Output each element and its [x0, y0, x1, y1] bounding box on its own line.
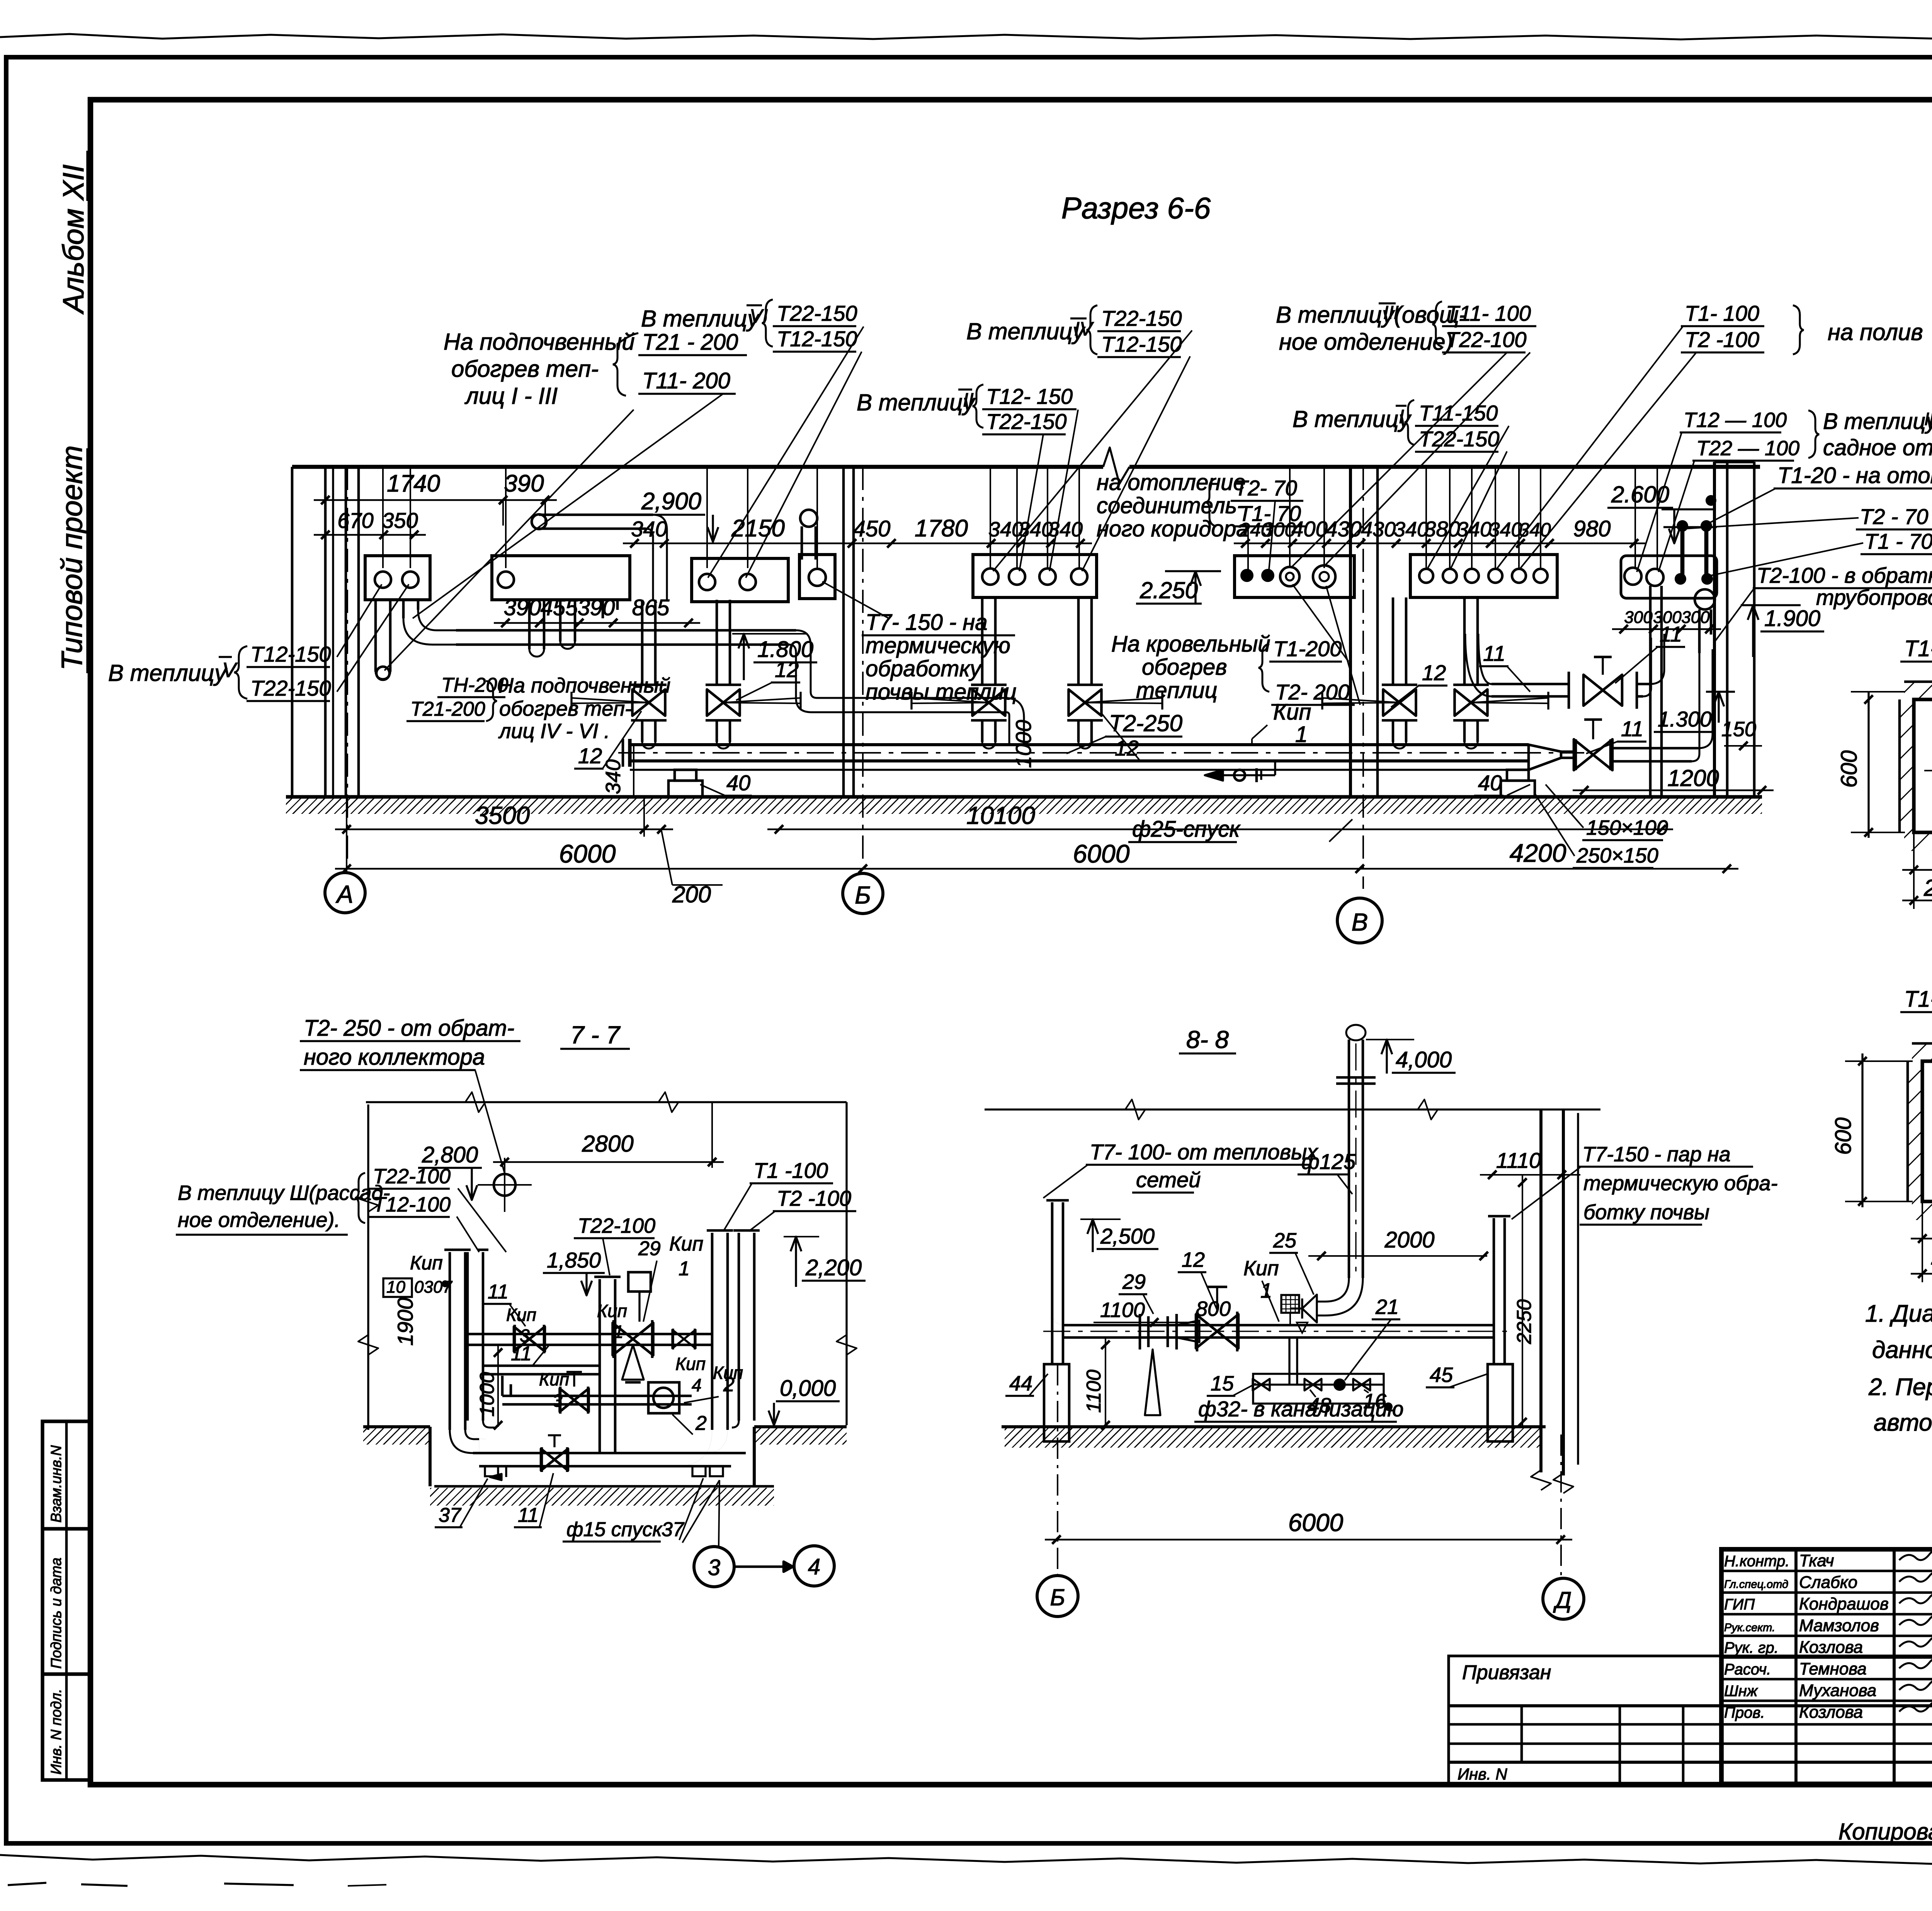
svg-text:6000: 6000	[1073, 839, 1130, 868]
svg-text:обработку: обработку	[866, 656, 982, 681]
riser pipe above valve 6	[1463, 597, 1466, 685]
svg-text:Т1- 70: Т1- 70	[1238, 501, 1301, 526]
svg-text:садное отделение): садное отделение)	[1823, 435, 1932, 460]
dim row 340-2150-450-1780-340x3	[623, 543, 1092, 545]
ground hatch 8-8	[1005, 1428, 1542, 1448]
dim row 670/350	[314, 534, 426, 536]
riser pipe above valve 5	[1392, 597, 1395, 685]
svg-text:Б: Б	[1050, 1584, 1065, 1610]
bottom horizontal run 7-7	[473, 1452, 746, 1455]
right wall 8-8	[1539, 1110, 1543, 1472]
black dot near 2600	[1706, 495, 1716, 506]
svg-text:На подпочвенный: На подпочвенный	[444, 329, 635, 355]
riser flange break	[1336, 1076, 1376, 1079]
svg-text:Рук. гр.: Рук. гр.	[1724, 1639, 1779, 1656]
svg-text:340: 340	[1394, 518, 1429, 541]
valve 11 lower right	[1574, 739, 1593, 770]
channel б-б left wall hatch	[1908, 1061, 1922, 1201]
svg-text:ботку почвы: ботку почвы	[1583, 1201, 1709, 1224]
svg-text:Инв. N подл.: Инв. N подл.	[48, 1689, 65, 1775]
svg-text:2,200: 2,200	[805, 1255, 862, 1280]
riser dot P9d	[1701, 573, 1713, 585]
channel a-a left wall hatch	[1900, 699, 1914, 832]
top boundary line 8-8	[985, 1108, 1600, 1110]
elbow from wall riser to upper branch	[1478, 634, 1492, 684]
svg-text:150×100: 150×100	[1586, 816, 1668, 839]
big mixing valve on upper run	[613, 1323, 633, 1355]
svg-text:III: III	[1924, 409, 1932, 429]
torn paper edge top	[0, 34, 1932, 39]
svg-text:Т7-150 - пар на: Т7-150 - пар на	[1582, 1143, 1731, 1166]
svg-text:2,900: 2,900	[641, 488, 701, 515]
valve 12 at x3807	[1453, 684, 1489, 686]
svg-text:Кип: Кип	[669, 1233, 703, 1255]
sleeve P8-2	[1443, 569, 1457, 583]
svg-text:29: 29	[1122, 1270, 1146, 1293]
left column axis	[1057, 1364, 1058, 1574]
leaders from V labels to P1	[337, 584, 382, 657]
grid bubble В	[1337, 898, 1382, 943]
leaders right T2-70 T1-70 to dots	[1685, 518, 1859, 529]
drain assembly f25	[1274, 761, 1276, 775]
svg-text:Мамзолов: Мамзолов	[1799, 1616, 1879, 1635]
svg-text:обогрев теп-: обогрев теп-	[451, 356, 599, 382]
svg-text:Т22-150: Т22-150	[250, 676, 331, 700]
svg-text:Т2 -100: Т2 -100	[777, 1186, 851, 1210]
svg-text:трубопровод: трубопровод	[1816, 585, 1932, 609]
svg-text:Т22-100: Т22-100	[1446, 327, 1527, 352]
sleeve P9b	[1646, 569, 1663, 586]
svg-text:автоматики см. лист 8.: автоматики см. лист 8.	[1874, 1409, 1932, 1436]
svg-text:7 - 7: 7 - 7	[570, 1021, 621, 1049]
svg-text:10: 10	[386, 1278, 405, 1297]
small valve on upper run	[672, 1330, 684, 1348]
riser pipe f125	[1348, 1040, 1350, 1278]
svg-text:390: 390	[504, 470, 544, 497]
svg-text:ное отделение): ное отделение)	[1279, 329, 1453, 355]
pit hatch bottom	[430, 1488, 774, 1506]
axis line B 8-8 lower	[1057, 1574, 1058, 1576]
svg-text:0307: 0307	[414, 1278, 452, 1297]
svg-text:I: I	[1399, 406, 1404, 427]
valve 12 spindle	[1216, 1287, 1218, 1312]
valve 12 at x2559	[971, 684, 1007, 686]
channel б-б inner outline	[1922, 1061, 1932, 1201]
torn paper edge bottom	[0, 1855, 1932, 1865]
svg-text:ного коридора: ного коридора	[1097, 516, 1248, 541]
pipe sleeve circle P2	[498, 572, 514, 588]
drain ball valve	[1333, 1378, 1346, 1391]
dim row 240-300-400-430 / 430-340-380-340-340-340 / 980	[1234, 543, 1646, 545]
svg-text:11: 11	[518, 1504, 539, 1526]
svg-text:1900: 1900	[393, 1298, 417, 1346]
leaders na poliv to plate P8	[1497, 327, 1683, 568]
riser pipe above valve 3	[981, 597, 984, 685]
svg-text:Кип: Кип	[410, 1252, 443, 1274]
drain valves row	[1253, 1379, 1261, 1390]
middle riser pair	[599, 1279, 601, 1453]
svg-text:430: 430	[1361, 518, 1396, 541]
dim row 390/455/390/865	[494, 622, 700, 624]
sleeve P8-6	[1534, 569, 1548, 583]
svg-text:2250: 2250	[1513, 1299, 1536, 1344]
riser above P7c	[1289, 467, 1291, 568]
svg-text:37: 37	[662, 1518, 685, 1541]
svg-text:11: 11	[1660, 622, 1682, 646]
channel a-a pipes centerline horizontal	[1924, 770, 1932, 771]
svg-text:455: 455	[541, 595, 578, 620]
left riser elbow into run	[1052, 1312, 1065, 1325]
svg-text:Д: Д	[1553, 1587, 1571, 1613]
svg-text:Альбом ХII: Альбом ХII	[57, 164, 90, 315]
valve 12 at x1679	[631, 684, 667, 686]
wall at axis Б	[842, 467, 845, 797]
svg-text:40: 40	[726, 771, 750, 795]
svg-text:Т12-150: Т12-150	[777, 327, 857, 351]
grid bubble Б	[843, 873, 883, 914]
svg-text:3: 3	[553, 1390, 563, 1411]
svg-text:ное отделение).: ное отделение).	[178, 1208, 340, 1232]
ceiling line	[292, 465, 1103, 469]
svg-text:Т2- 200: Т2- 200	[1275, 680, 1350, 704]
svg-text:В теплицу: В теплицу	[1293, 406, 1412, 432]
svg-text:600: 600	[1831, 1118, 1856, 1155]
svg-text:Т12-100: Т12-100	[373, 1193, 451, 1216]
grid bubble A	[325, 873, 365, 913]
circle on return pipe	[1695, 589, 1715, 609]
svg-text:Т2- 70: Т2- 70	[1235, 476, 1297, 500]
pump on middle run	[648, 1382, 679, 1413]
svg-text:Т1 - 70: Т1 - 70	[1864, 529, 1932, 553]
svg-text:1000: 1000	[476, 1372, 498, 1417]
anchor plate P7	[1235, 556, 1354, 597]
svg-text:0,000: 0,000	[780, 1376, 836, 1401]
svg-text:В теплицу: В теплицу	[966, 318, 1086, 344]
right pipe pair 2	[738, 1233, 740, 1421]
KIP box on top	[628, 1272, 651, 1292]
svg-text:В теплицу: В теплицу	[1823, 409, 1932, 434]
drain tick on bottom run	[505, 1466, 507, 1477]
privyazan block outline	[1449, 1656, 1932, 1784]
axis Б dash-dot line	[862, 467, 864, 865]
axis A dash-dot line	[347, 467, 348, 872]
svg-text:6000: 6000	[559, 839, 616, 868]
svg-text:Кип: Кип	[539, 1369, 569, 1389]
KIP mesh box	[1281, 1295, 1299, 1313]
riser above P8-5	[1518, 467, 1520, 568]
svg-text:3500: 3500	[475, 801, 530, 829]
svg-text:250×150: 250×150	[1576, 844, 1658, 867]
riser above P2	[505, 467, 507, 568]
svg-text:Т11- 200: Т11- 200	[642, 368, 730, 393]
svg-text:10100: 10100	[966, 801, 1035, 829]
svg-text:Кондрашов: Кондрашов	[1799, 1594, 1889, 1613]
svg-text:Инв. N: Инв. N	[1458, 1765, 1507, 1783]
svg-text:11: 11	[488, 1281, 509, 1303]
upper branch spindle	[1602, 657, 1604, 675]
svg-text:2: 2	[723, 1373, 735, 1396]
drain drop pipe	[1288, 1338, 1290, 1385]
svg-text:865: 865	[632, 595, 670, 620]
svg-text:на отопление: на отопление	[1097, 470, 1246, 495]
leaders I to plate P8	[1428, 426, 1509, 568]
wall at axis A	[291, 467, 294, 797]
middle horizontal run 7-7	[502, 1395, 692, 1397]
svg-text:На подпочвенный: На подпочвенный	[498, 674, 670, 697]
svg-text:Н.контр.: Н.контр.	[1724, 1553, 1789, 1570]
stamp row line 1	[43, 1527, 90, 1530]
brace 7-7 left labels	[355, 1173, 365, 1223]
right pipes elbow to bottom run	[704, 1430, 728, 1453]
svg-text:390: 390	[578, 595, 615, 620]
leaders T2-70/T1-70 to P7 dots	[1269, 501, 1275, 570]
return pipe extension to plate	[1698, 609, 1701, 653]
grid bubble 4	[794, 1546, 834, 1586]
svg-text:ф32- в канализацию: ф32- в канализацию	[1198, 1397, 1404, 1421]
svg-text:11: 11	[1621, 716, 1643, 741]
valve on bottom run	[541, 1449, 554, 1470]
svg-text:600: 600	[1837, 750, 1862, 788]
riser above P3a	[706, 467, 708, 568]
svg-text:670: 670	[337, 508, 373, 533]
svg-text:В: В	[1352, 908, 1368, 936]
riser top cap	[1346, 1025, 1366, 1040]
dim 600 vertical б-б	[1861, 1053, 1863, 1207]
svg-text:Т11-150: Т11-150	[1419, 401, 1498, 425]
svg-text:Шнж: Шнж	[1724, 1683, 1758, 1700]
riser above P3b	[747, 467, 748, 568]
svg-text:390: 390	[504, 595, 541, 620]
svg-text:4: 4	[808, 1554, 820, 1579]
svg-text:1100: 1100	[1083, 1370, 1105, 1413]
riser above P6c	[1047, 467, 1048, 568]
leaders VI to plate P3	[708, 327, 864, 578]
pipe lower branch to right elbow up	[1611, 747, 1698, 750]
svg-text:2,800: 2,800	[422, 1142, 478, 1167]
svg-text:12: 12	[578, 744, 602, 768]
svg-text:250: 250	[1923, 875, 1932, 901]
pipe support pedestal 2	[1507, 770, 1529, 781]
sleeve P8-5	[1512, 569, 1526, 583]
svg-text:Т21 - 200: Т21 - 200	[642, 330, 738, 355]
svg-text:обогрев: обогрев	[1142, 655, 1227, 680]
sleeve P6c	[1039, 568, 1056, 585]
svg-text:А: А	[335, 880, 354, 908]
svg-text:Т22-150: Т22-150	[1101, 306, 1182, 330]
svg-text:340: 340	[631, 517, 667, 541]
leaders T1-200/T2-200 to P7 circles	[1293, 584, 1349, 662]
svg-text:В теплицу: В теплицу	[641, 306, 760, 332]
svg-text:Т2-250: Т2-250	[1109, 710, 1182, 736]
drain manifold 8-8	[1253, 1374, 1384, 1404]
riser above P8-1	[1425, 467, 1427, 568]
mid pipe step down elbow	[796, 630, 1005, 698]
dim row 300 300 300 small	[1612, 628, 1721, 630]
dim extension lines for 1740	[502, 500, 504, 526]
svg-text:1200: 1200	[1667, 765, 1719, 791]
valve 12 at x2808	[1067, 684, 1103, 686]
svg-text:11: 11	[511, 1343, 532, 1365]
privyazan rows	[1449, 1704, 1932, 1707]
svg-text:2: 2	[695, 1412, 707, 1435]
svg-text:термическую: термическую	[866, 633, 1010, 658]
svg-text:Гл.спец.отд: Гл.спец.отд	[1724, 1578, 1788, 1591]
svg-text:4: 4	[692, 1375, 702, 1395]
svg-text:Т2 - 70: Т2 - 70	[1860, 504, 1928, 529]
dim row 1740/390 above left assembly	[314, 499, 557, 501]
svg-text:ф125: ф125	[1301, 1149, 1356, 1174]
svg-text:ГИП: ГИП	[1724, 1596, 1755, 1613]
svg-text:8- 8: 8- 8	[1186, 1026, 1229, 1053]
svg-text:2,500: 2,500	[1100, 1224, 1155, 1248]
anchor plate P3	[692, 558, 788, 602]
U stub below P2 right going into long pipe	[602, 600, 604, 618]
pit hatch left	[363, 1428, 430, 1445]
svg-text:соединитель-: соединитель-	[1097, 493, 1245, 518]
second run short	[483, 1365, 600, 1367]
svg-text:21: 21	[1375, 1295, 1399, 1319]
svg-text:данном листе, см. листы 7,: данном листе, см. листы 7, 8.	[1872, 1337, 1932, 1363]
svg-text:Т22-100: Т22-100	[373, 1165, 451, 1188]
svg-text:150: 150	[1721, 718, 1756, 741]
stamp row line 2	[43, 1672, 90, 1676]
svg-text:1000: 1000	[1011, 720, 1036, 768]
grid bubble Д 8-8	[1543, 1578, 1584, 1619]
valve outlet stub x2808	[1077, 720, 1080, 742]
svg-text:ного коллектора: ного коллектора	[304, 1045, 485, 1070]
supports under bottom run	[485, 1466, 498, 1476]
left pipe pair 2	[466, 1252, 469, 1421]
sleeve P7d	[1313, 565, 1335, 588]
riser pipe above valve 4	[1077, 597, 1080, 685]
leaders III to plate P7	[1291, 352, 1507, 568]
svg-text:II: II	[963, 389, 974, 411]
collector left end flange	[628, 739, 631, 767]
svg-text:Т1 -100: Т1 -100	[753, 1158, 828, 1183]
riser above P8-4	[1495, 467, 1496, 568]
channel a-a bottom hatch	[1904, 832, 1932, 851]
riser above P8-6	[1540, 467, 1541, 568]
leader to compensator circle	[475, 1070, 505, 1173]
svg-text:сетей: сетей	[1136, 1167, 1201, 1192]
upper horizontal run 7-7	[465, 1333, 712, 1336]
svg-text:2. Перечень отборных устройс: 2. Перечень отборных устройств КИП и сре…	[1868, 1374, 1932, 1400]
sleeve P6b	[1009, 568, 1025, 585]
svg-text:1: 1	[1295, 722, 1308, 747]
left support column	[1044, 1364, 1069, 1441]
svg-text:Взам.инв.N: Взам.инв.N	[48, 1445, 65, 1523]
svg-text:25: 25	[1273, 1229, 1297, 1252]
svg-text:Подпись и дата: Подпись и дата	[48, 1558, 65, 1669]
svg-text:ф15 спуск: ф15 спуск	[566, 1518, 663, 1541]
sleeve P6d	[1071, 568, 1087, 585]
valve outlet stub x1872	[716, 720, 718, 742]
channel a-a top hatch	[1904, 682, 1932, 699]
riser above P8-2	[1449, 467, 1451, 568]
valve 11 on upper run	[514, 1327, 529, 1351]
svg-text:Т1-200: Т1-200	[1273, 636, 1342, 661]
svg-text:Т22-150: Т22-150	[777, 301, 857, 325]
svg-text:Т21-200: Т21-200	[410, 698, 485, 720]
left boundary line 7-7	[367, 1104, 369, 1430]
svg-text:Рук.сект.: Рук.сект.	[1724, 1622, 1775, 1634]
dim 1200	[1573, 790, 1774, 791]
reducer cone	[1529, 745, 1561, 770]
pipe sleeve circle P5	[809, 569, 826, 586]
sleeve P6a	[982, 568, 998, 585]
riser dot P9c	[1675, 573, 1686, 585]
anchor plate P6	[973, 555, 1097, 597]
svg-text:Т12 — 100: Т12 — 100	[1684, 408, 1787, 432]
svg-text:Кип: Кип	[675, 1354, 706, 1374]
svg-text:Разрез 6-6: Разрез 6-6	[1061, 191, 1211, 225]
channel б-б bottom hatch	[1912, 1201, 1932, 1220]
pipe sleeve circle P3b	[740, 574, 756, 590]
right riser 8-8	[1493, 1218, 1495, 1364]
left margin stamp column box	[43, 1421, 90, 1780]
svg-text:Привязан: Привязан	[1462, 1661, 1551, 1684]
svg-text:1740: 1740	[387, 470, 440, 497]
riser above P9a	[1634, 467, 1636, 568]
drain cone under valve 29	[1145, 1349, 1160, 1415]
left riser 8-8	[1051, 1202, 1054, 1364]
compensator circle	[494, 1174, 515, 1196]
svg-text:Б: Б	[855, 881, 871, 909]
anchor plate P1	[365, 556, 430, 600]
grid arrow 3 to 4	[734, 1566, 784, 1568]
svg-text:4200: 4200	[1510, 839, 1566, 867]
channel a-a inner outline	[1914, 699, 1932, 832]
anchor plate P8	[1410, 555, 1557, 597]
big valve 12 on run	[1196, 1314, 1217, 1348]
upper pipe left end cap	[532, 514, 546, 529]
leader T7-150 to P5	[822, 582, 889, 618]
svg-text:12: 12	[1422, 660, 1446, 685]
svg-text:Т2-100 - в обратный: Т2-100 - в обратный	[1757, 563, 1932, 587]
leaders rassadnoe to plate P9	[1637, 433, 1682, 572]
riser above P9b	[1656, 467, 1658, 568]
svg-text:В теплицу: В теплицу	[1276, 302, 1395, 328]
slab line 7-7	[434, 1485, 774, 1488]
svg-text:Т22-150: Т22-150	[1419, 427, 1500, 451]
main run 8-8	[1063, 1324, 1494, 1327]
riser above P6b	[1016, 467, 1018, 568]
svg-text:термическую обра-: термическую обра-	[1583, 1172, 1777, 1195]
svg-text:350: 350	[382, 508, 418, 533]
svg-text:Ткач: Ткач	[1799, 1551, 1834, 1570]
grid bubble Б 8-8	[1037, 1576, 1078, 1617]
svg-text:Кип: Кип	[597, 1301, 627, 1321]
dim row 3500/200	[335, 829, 673, 830]
dim 2100 б-б	[1911, 1273, 1932, 1275]
riser pipe above valve 1	[641, 600, 644, 685]
svg-text:1: 1	[679, 1258, 690, 1280]
svg-text:ф25-спуск: ф25-спуск	[1132, 817, 1241, 842]
dim 600 vertical a-a	[1867, 692, 1869, 838]
svg-text:Т1-150: Т1-150	[1904, 987, 1932, 1012]
svg-text:12: 12	[1182, 1248, 1205, 1271]
svg-text:450: 450	[853, 516, 891, 541]
svg-text:Т22-150: Т22-150	[986, 409, 1067, 434]
dim 2100 a-a	[1902, 900, 1932, 902]
leader into bubble 3	[719, 1480, 719, 1546]
riser above P8-3	[1471, 467, 1473, 568]
svg-text:Т1- 100: Т1- 100	[1685, 301, 1759, 325]
collector pipe T2-250 top line	[630, 743, 1529, 746]
svg-text:Т22 — 100: Т22 — 100	[1696, 437, 1799, 460]
svg-text:Т2- 250 - от обрат-: Т2- 250 - от обрат-	[304, 1016, 514, 1041]
svg-text:Т12-150: Т12-150	[1101, 332, 1182, 356]
